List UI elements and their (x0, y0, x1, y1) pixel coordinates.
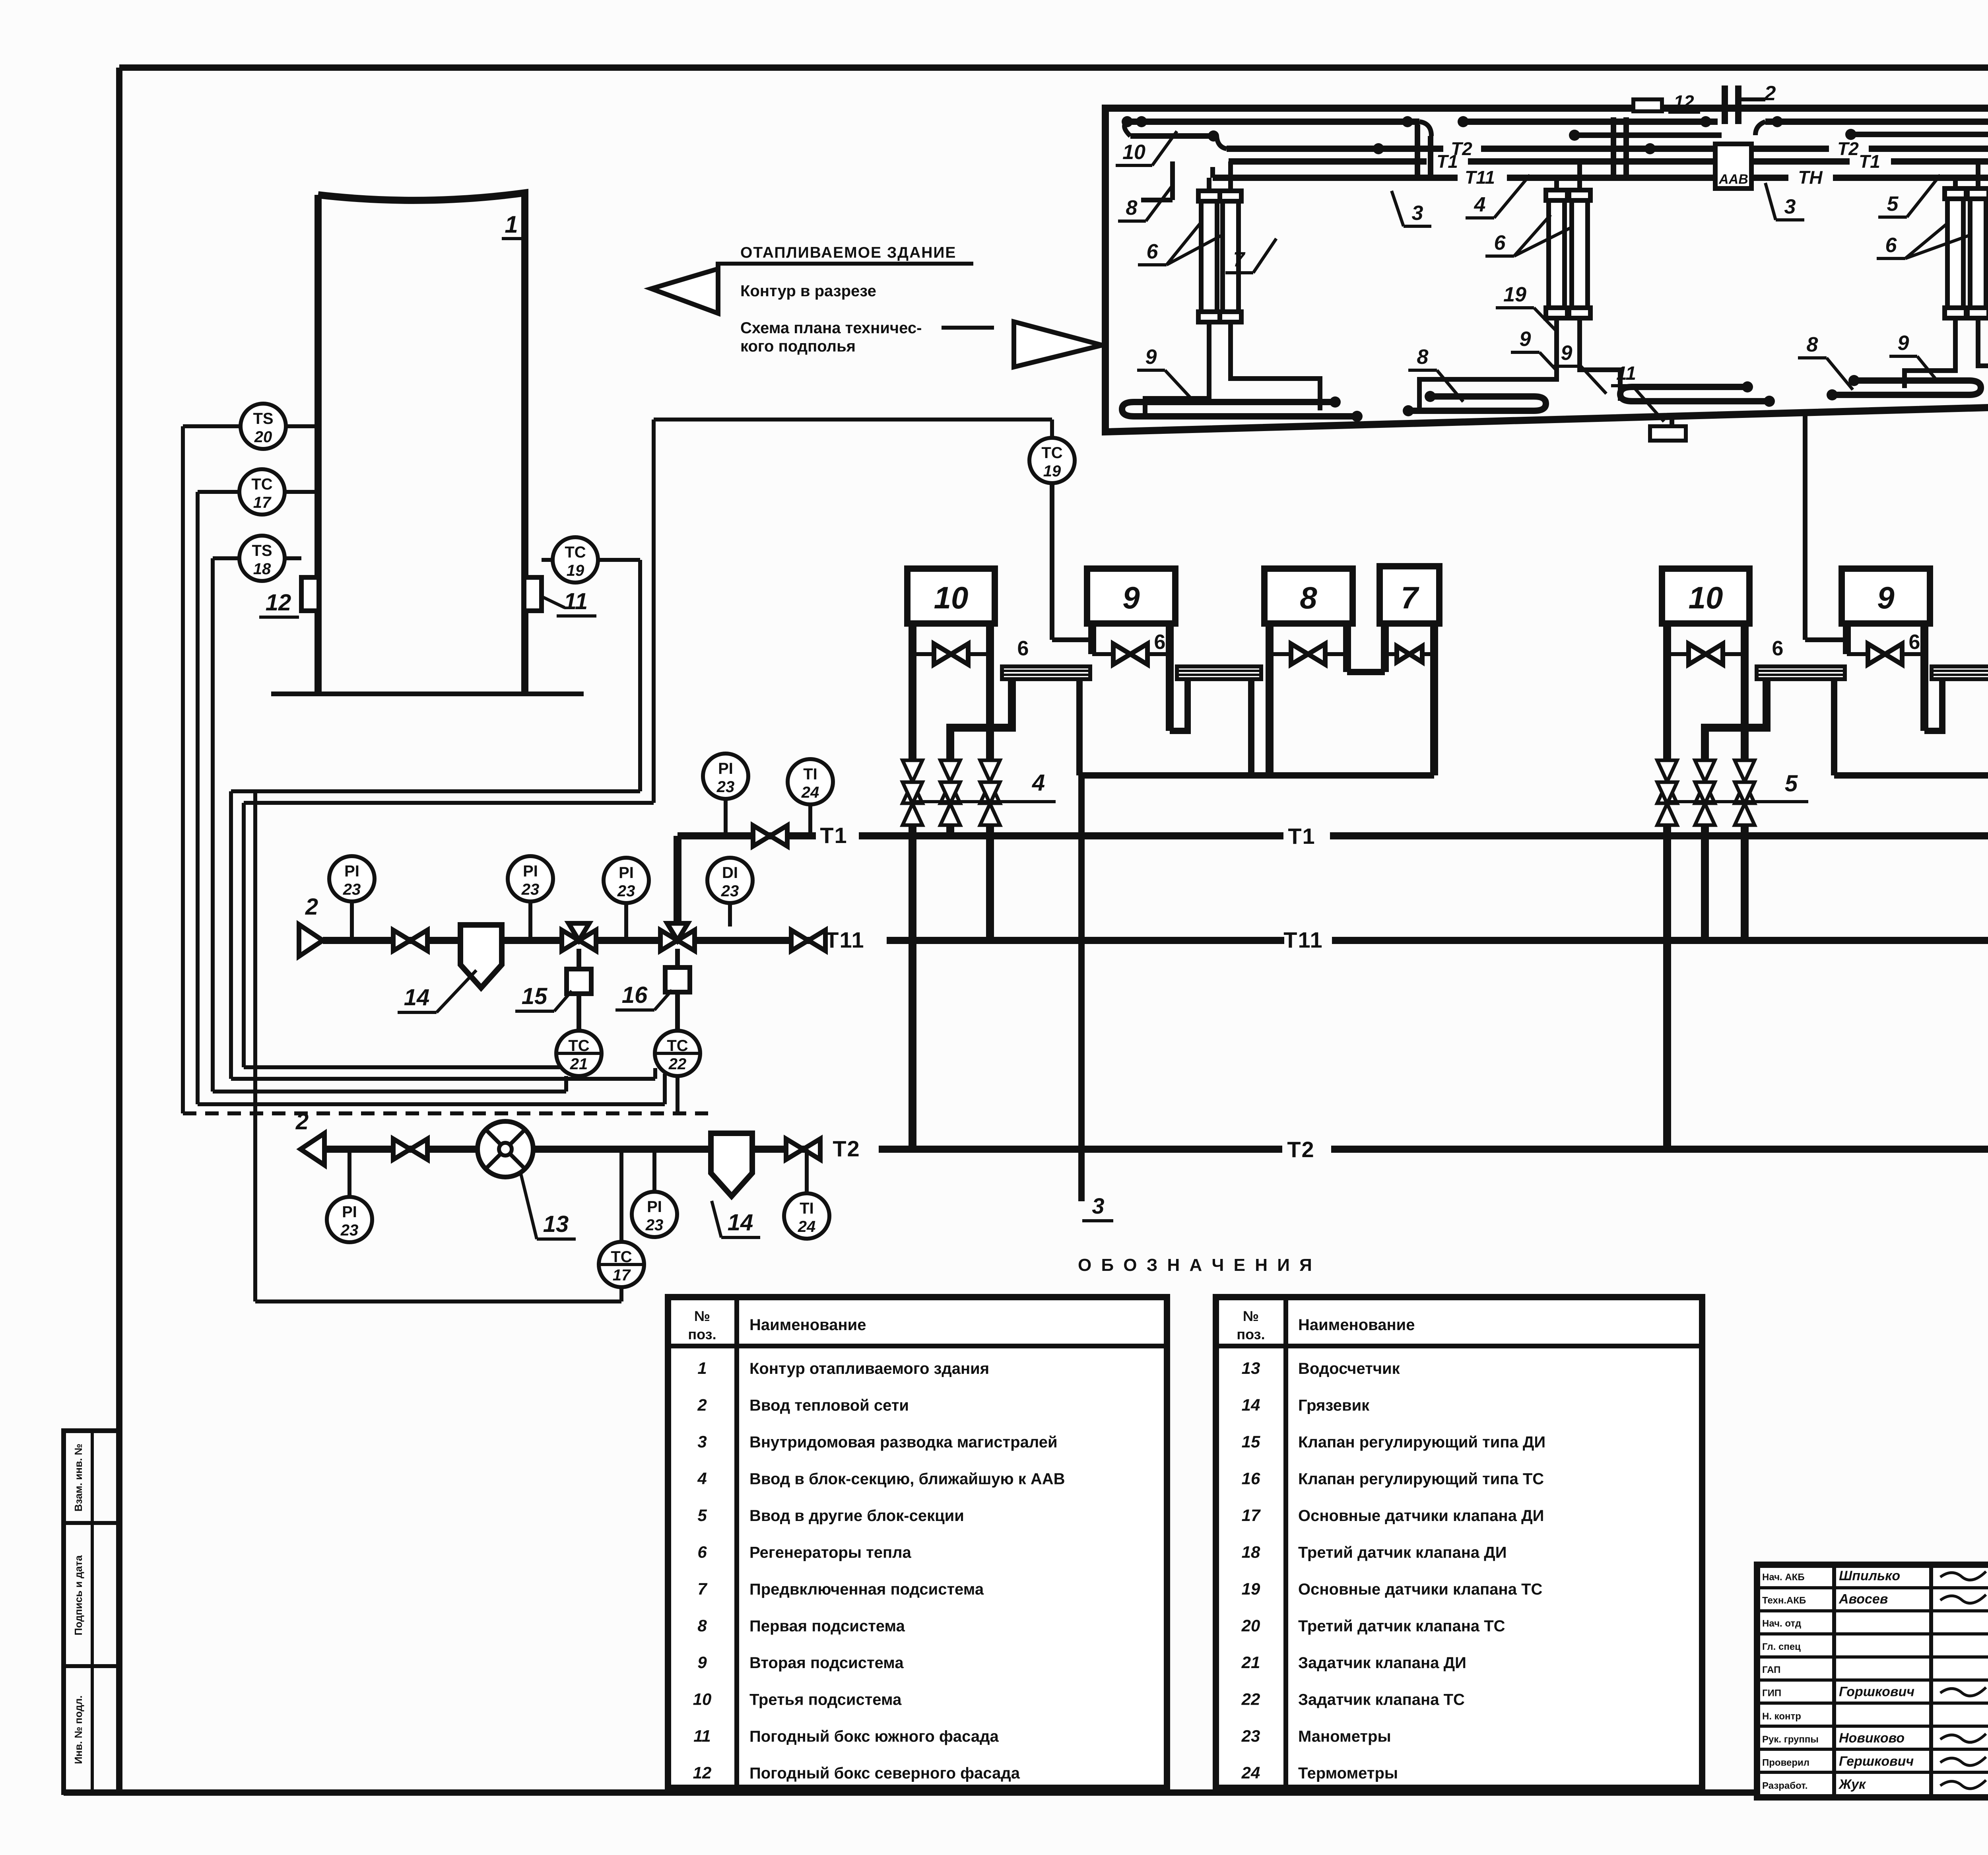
regenerator 6 bar A (1757, 666, 1845, 679)
svg-text:23: 23 (343, 881, 361, 898)
regenerator 6 bar A (1002, 666, 1090, 679)
svg-text:Т1: Т1 (820, 823, 847, 848)
svg-text:PI: PI (342, 1203, 357, 1221)
svg-text:8: 8 (1300, 580, 1317, 615)
svg-text:Термометры: Термометры (1298, 1765, 1398, 1782)
svg-text:19: 19 (567, 562, 584, 579)
svg-text:PI: PI (718, 760, 733, 777)
svg-text:23: 23 (645, 1216, 664, 1234)
svg-text:№: № (694, 1308, 710, 1324)
legend table left (668, 1297, 1167, 1788)
svg-text:Предвключенная подсистема: Предвключенная подсистема (749, 1581, 984, 1598)
strainer 14 on T2 (711, 1133, 752, 1196)
plan bottom bars (1122, 402, 1357, 416)
weather box 11 (524, 577, 542, 611)
svg-text:10: 10 (1122, 141, 1145, 164)
svg-text:Третья подсистема: Третья подсистема (749, 1691, 902, 1709)
cluster to bottom bars pipes (1145, 322, 1209, 415)
svg-text:8: 8 (697, 1616, 707, 1635)
svg-text:Манометры: Манометры (1298, 1728, 1391, 1745)
svg-text:17: 17 (253, 494, 272, 511)
svg-text:Т11: Т11 (1465, 167, 1495, 188)
box 9 to bar B elbow (1170, 681, 1188, 731)
svg-text:ОТАПЛИВАЕМОЕ ЗДАНИЕ: ОТАПЛИВАЕМОЕ ЗДАНИЕ (740, 244, 956, 261)
plan regenerator cluster 1 (1201, 200, 1217, 313)
svg-text:10: 10 (934, 580, 969, 615)
svg-text:18: 18 (253, 560, 271, 578)
svg-text:21: 21 (570, 1055, 588, 1073)
svg-text:Клапан регулирующий типа ТС: Клапан регулирующий типа ТС (1298, 1470, 1544, 1488)
svg-text:Н. контр: Н. контр (1762, 1711, 1801, 1722)
svg-text:Вторая подсистема: Вторая подсистема (749, 1654, 904, 1672)
svg-text:3: 3 (697, 1432, 707, 1451)
svg-text:1: 1 (505, 211, 518, 238)
legs of box 8 (1266, 624, 1274, 775)
svg-text:Т2: Т2 (1287, 1137, 1314, 1162)
svg-text:17: 17 (613, 1266, 631, 1284)
svg-text:6: 6 (1017, 637, 1029, 660)
svg-text:15: 15 (1242, 1432, 1260, 1451)
arrow to plan (942, 326, 994, 330)
plan regenerator cluster 2 (1549, 200, 1565, 309)
svg-text:Т1: Т1 (1288, 824, 1315, 849)
pipe T1 riser from valve 16 (674, 836, 681, 932)
svg-text:12: 12 (693, 1764, 712, 1782)
instruments below T2 (327, 1197, 372, 1242)
regenerator 6 bar B (1177, 666, 1261, 679)
svg-text:Нач. АКБ: Нач. АКБ (1762, 1572, 1805, 1583)
svg-text:14: 14 (404, 985, 430, 1010)
svg-text:3: 3 (1784, 195, 1796, 218)
riser 3 (1078, 775, 1085, 1201)
svg-text:18: 18 (1242, 1543, 1260, 1562)
svg-text:Авосев: Авосев (1839, 1591, 1888, 1606)
svg-text:9: 9 (1122, 580, 1140, 615)
wire from loop rectangle (652, 420, 656, 803)
svg-text:11: 11 (693, 1727, 711, 1745)
svg-text:24: 24 (801, 784, 819, 801)
svg-text:24: 24 (798, 1218, 816, 1235)
svg-text:10: 10 (1689, 580, 1723, 615)
svg-text:Ввод в другие блок-секции: Ввод в другие блок-секции (749, 1507, 964, 1525)
pipe T2 (325, 1146, 816, 1153)
svg-text:Т2: Т2 (833, 1136, 860, 1161)
plan main T2 (1227, 146, 1443, 152)
collector pipe (1834, 772, 1988, 779)
svg-text:кого подполья: кого подполья (740, 338, 856, 355)
svg-text:ААВ: ААВ (1718, 172, 1748, 187)
svg-text:6: 6 (697, 1543, 707, 1562)
box 7 (1380, 566, 1439, 624)
svg-text:9: 9 (697, 1653, 707, 1672)
svg-text:Ввод тепловой сети: Ввод тепловой сети (749, 1397, 909, 1414)
box 9 (1087, 569, 1175, 624)
svg-text:№: № (1243, 1308, 1259, 1324)
svg-text:ТС: ТС (611, 1248, 632, 1266)
valve under box 10 (1667, 652, 1745, 656)
svg-text:Наименование: Наименование (1298, 1316, 1415, 1334)
bundle horizontal wires to valve sensors (244, 1065, 561, 1069)
svg-text:TC: TC (1041, 444, 1062, 462)
svg-text:12: 12 (266, 590, 291, 616)
group 2 pipes below valves (1663, 836, 1671, 1149)
svg-text:Рук. группы: Рук. группы (1762, 1734, 1819, 1745)
svg-text:ГИП: ГИП (1762, 1688, 1781, 1699)
svg-text:Погодный бокс северного фасад: Погодный бокс северного фасада (749, 1765, 1020, 1782)
svg-text:О Б О З Н А Ч Е Н И Я: О Б О З Н А Ч Е Н И Я (1078, 1255, 1314, 1275)
svg-text:ГАП: ГАП (1762, 1665, 1780, 1675)
pipe T1 (678, 832, 816, 839)
svg-text:Новиково: Новиково (1839, 1731, 1905, 1746)
svg-text:14: 14 (1242, 1396, 1260, 1414)
svg-text:4: 4 (1032, 770, 1045, 796)
svg-text:Внутридомовая разводка магистр: Внутридомовая разводка магистралей (749, 1433, 1058, 1451)
svg-text:Третий датчик клапана ДИ: Третий датчик клапана ДИ (1298, 1544, 1507, 1562)
svg-text:Регенераторы тепла: Регенераторы тепла (749, 1544, 912, 1562)
svg-text:9: 9 (1877, 580, 1895, 615)
svg-text:Инв. № подл.: Инв. № подл. (72, 1696, 84, 1764)
svg-text:Задатчик клапана ТС: Задатчик клапана ТС (1298, 1691, 1465, 1709)
cluster feed pipes (1207, 178, 1211, 191)
svg-text:PI: PI (523, 862, 538, 880)
svg-text:16: 16 (1242, 1469, 1260, 1488)
legend table right (1216, 1297, 1702, 1788)
valve on T2 right (786, 1139, 820, 1160)
sensor TC19 (drop to group 1) (1050, 420, 1054, 438)
svg-text:Жук: Жук (1838, 1777, 1866, 1792)
svg-text:DI: DI (722, 864, 738, 882)
plan view outer contour (1105, 108, 1988, 432)
plan vertical risers (1415, 124, 1420, 178)
svg-text:TI: TI (803, 765, 817, 783)
svg-text:Ввод в блок-секцию, ближайшую: Ввод в блок-секцию, ближайшую к ААВ (749, 1470, 1065, 1488)
svg-text:Контур в разрезе: Контур в разрезе (740, 282, 876, 300)
svg-text:13: 13 (543, 1211, 569, 1237)
svg-text:Взам. инв. №: Взам. инв. № (72, 1444, 84, 1512)
sensor TS20 (241, 404, 286, 449)
svg-text:TS: TS (252, 542, 272, 559)
svg-text:24: 24 (1241, 1764, 1260, 1782)
svg-text:15: 15 (522, 983, 547, 1009)
svg-text:TS: TS (253, 410, 273, 427)
svg-text:5: 5 (1887, 192, 1899, 216)
legs of box 10 (1663, 624, 1671, 771)
hooks ends (1124, 122, 1431, 136)
svg-text:Наименование: Наименование (749, 1316, 866, 1334)
svg-text:Проверил: Проверил (1762, 1757, 1809, 1768)
plan top manifold bars row 2 (1130, 133, 1213, 139)
plan main T11 (1213, 175, 1458, 181)
loop rectangle top wire (654, 418, 1052, 422)
svg-text:PI: PI (619, 864, 634, 882)
svg-text:19: 19 (1242, 1579, 1260, 1598)
triple gate valves (909, 811, 916, 836)
legs of box 9 (1088, 624, 1096, 654)
triple gate valves (1663, 811, 1671, 836)
valve on T1 (753, 826, 787, 846)
sensor TS18 (239, 536, 285, 581)
svg-text:3: 3 (1092, 1193, 1104, 1218)
svg-text:Водосчетчик: Водосчетчик (1298, 1360, 1400, 1377)
PI23 on T1 (703, 754, 748, 799)
sensor stub wires at building (286, 424, 318, 428)
svg-text:8: 8 (1417, 346, 1429, 369)
svg-text:6: 6 (1154, 631, 1166, 654)
svg-text:Третий датчик клапана ТС: Третий датчик клапана ТС (1298, 1618, 1505, 1635)
sheet border frame (119, 64, 1988, 71)
svg-text:4: 4 (697, 1469, 707, 1488)
svg-text:8: 8 (1126, 196, 1138, 219)
svg-text:23: 23 (1241, 1727, 1260, 1745)
regenerator 6 bar B (1932, 666, 1988, 679)
svg-text:Нач. отд: Нач. отд (1762, 1618, 1801, 1629)
water meter 13 (478, 1121, 533, 1177)
svg-text:Грязевик: Грязевик (1298, 1397, 1370, 1414)
svg-text:12: 12 (1673, 91, 1694, 112)
legs of box 9 (1843, 624, 1851, 654)
svg-text:6: 6 (1909, 631, 1920, 654)
svg-text:14: 14 (728, 1210, 753, 1235)
svg-text:Горшкович: Горшкович (1839, 1684, 1914, 1700)
svg-text:7: 7 (1401, 580, 1419, 615)
pipe T11 (323, 937, 816, 944)
svg-text:23: 23 (721, 882, 739, 900)
label 4 with leader (912, 800, 1046, 803)
3-way valve 16 (660, 930, 695, 951)
strainer 14 on T11 (460, 925, 502, 988)
valve on T11 left (393, 930, 427, 951)
bar B right support (1248, 679, 1254, 775)
bar A right support (1076, 679, 1083, 775)
svg-text:Первая подсистема: Первая подсистема (749, 1618, 905, 1635)
valve on T11 right (791, 930, 825, 951)
valve on T2 left (393, 1139, 427, 1160)
svg-text:Основные датчики клапана ДИ: Основные датчики клапана ДИ (1298, 1507, 1544, 1525)
title block (1757, 1565, 1988, 1797)
svg-text:PI: PI (344, 862, 359, 880)
svg-text:13: 13 (1242, 1359, 1260, 1377)
svg-text:23: 23 (340, 1222, 359, 1239)
svg-text:9: 9 (1561, 342, 1573, 365)
bar A right support (1831, 679, 1837, 775)
svg-text:23: 23 (716, 778, 735, 796)
wire loop to TC17 bottom (253, 791, 257, 1301)
valve under box 7 (1385, 652, 1434, 656)
heat inlet 2 (capacitor bars) (1722, 85, 1728, 124)
svg-text:9: 9 (1145, 346, 1157, 369)
svg-text:2: 2 (1764, 82, 1776, 105)
svg-text:Подпись и дата: Подпись и дата (72, 1555, 84, 1636)
svg-text:5: 5 (697, 1506, 707, 1525)
valve under box 9 (1092, 652, 1170, 656)
svg-text:7: 7 (697, 1579, 707, 1598)
svg-text:23: 23 (521, 881, 540, 898)
svg-text:7: 7 (1233, 248, 1246, 271)
svg-text:Т1: Т1 (1859, 151, 1880, 172)
svg-text:Контур отапливаемого здания: Контур отапливаемого здания (749, 1360, 989, 1377)
legs of box 10 (909, 624, 916, 771)
box 12 plan (1633, 99, 1662, 111)
group 2: box 10 (1662, 569, 1749, 624)
svg-text:Т11: Т11 (1283, 927, 1323, 952)
svg-text:Т11: Т11 (825, 927, 864, 952)
legs of box 7 (1381, 624, 1389, 672)
svg-text:Гершкович: Гершкович (1839, 1754, 1914, 1769)
collector pipe (1079, 772, 1434, 779)
svg-text:Гл. спец: Гл. спец (1762, 1641, 1801, 1652)
U-link box8 to box7 (1347, 669, 1385, 675)
svg-text:2: 2 (697, 1396, 707, 1414)
svg-text:22: 22 (1241, 1690, 1260, 1709)
sensor TC19 (south facade) (553, 537, 598, 583)
svg-text:17: 17 (1242, 1506, 1261, 1525)
svg-text:5: 5 (1785, 771, 1798, 796)
svg-text:ТС: ТС (667, 1037, 688, 1055)
svg-text:6: 6 (1885, 234, 1897, 257)
svg-text:6: 6 (1772, 637, 1784, 660)
wire from TC19 down (638, 560, 642, 791)
svg-text:Клапан регулирующий типа ДИ: Клапан регулирующий типа ДИ (1298, 1433, 1545, 1451)
svg-text:10: 10 (693, 1690, 712, 1709)
box 9 (1842, 569, 1930, 624)
svg-text:поз.: поз. (688, 1326, 716, 1342)
svg-text:PI: PI (647, 1198, 662, 1216)
svg-text:16: 16 (622, 982, 648, 1008)
svg-text:2: 2 (305, 894, 318, 920)
svg-text:поз.: поз. (1237, 1326, 1265, 1342)
svg-text:ТС: ТС (568, 1037, 589, 1055)
box 8 (1264, 569, 1353, 624)
wire bundle left verticals (181, 426, 185, 1113)
group 1 pipes below valves (909, 836, 916, 1149)
AAV box (1715, 144, 1751, 188)
svg-text:19: 19 (1503, 283, 1526, 306)
middle pipe from regenerator (950, 681, 1012, 771)
ground line (271, 691, 584, 696)
stub 11 below plan (1670, 416, 1674, 426)
svg-text:6: 6 (1147, 240, 1159, 263)
valve under box 9 (1847, 652, 1924, 656)
group 1: box 10 (907, 569, 995, 624)
arrow to section (651, 264, 718, 313)
svg-text:Основные датчики клапана ТС: Основные датчики клапана ТС (1298, 1581, 1542, 1598)
svg-text:22: 22 (668, 1055, 687, 1073)
svg-text:2: 2 (295, 1109, 309, 1134)
box 9 to bar B elbow (1924, 681, 1942, 731)
svg-text:20: 20 (254, 428, 272, 446)
svg-text:TC: TC (251, 476, 272, 493)
svg-text:Т1: Т1 (1437, 151, 1458, 172)
valve 15 sensor TC21 (577, 994, 581, 1031)
svg-text:1: 1 (697, 1359, 707, 1377)
valve under box 8 (1270, 652, 1347, 656)
svg-text:19: 19 (1043, 462, 1061, 480)
svg-text:4: 4 (1474, 193, 1486, 216)
valve 16 sensor TC22 (675, 992, 680, 1031)
plan main T1 (1229, 158, 1427, 165)
plan top manifold bars row 1 (1127, 118, 1419, 125)
svg-text:3: 3 (1412, 202, 1423, 225)
svg-text:11: 11 (564, 589, 588, 614)
weather box 12 (301, 577, 319, 611)
svg-text:Схема плана техничес-: Схема плана техничес- (740, 319, 922, 337)
svg-text:Техн.АКБ: Техн.АКБ (1762, 1595, 1806, 1606)
svg-text:Погодный бокс южного фасада: Погодный бокс южного фасада (749, 1728, 999, 1745)
svg-text:20: 20 (1241, 1616, 1260, 1635)
svg-text:Т2: Т2 (1837, 138, 1859, 159)
left margin stamp strip (64, 1431, 119, 1793)
instruments above T11 (329, 856, 375, 901)
building contour 1 (318, 193, 525, 694)
drop from plan to group 2 (1803, 412, 1807, 640)
svg-text:9: 9 (1898, 332, 1909, 355)
svg-text:21: 21 (1241, 1653, 1260, 1672)
svg-text:6: 6 (1494, 231, 1506, 254)
svg-text:Задатчик клапана ДИ: Задатчик клапана ДИ (1298, 1654, 1466, 1672)
middle pipe from regenerator (1705, 681, 1767, 771)
valve under box 10 (912, 652, 990, 656)
svg-text:11: 11 (1616, 363, 1636, 384)
label 5 with leader (1667, 800, 1797, 803)
svg-text:TI: TI (800, 1200, 814, 1217)
svg-text:Разработ.: Разработ. (1762, 1781, 1807, 1791)
svg-text:8: 8 (1807, 333, 1818, 356)
svg-text:TC: TC (565, 544, 586, 561)
svg-text:ТН: ТН (1798, 167, 1823, 188)
TI24 on T1 (788, 759, 833, 804)
svg-text:23: 23 (617, 882, 635, 900)
sensor TC17 (239, 469, 285, 515)
plan regenerator cluster 3 (1947, 198, 1963, 309)
svg-text:9: 9 (1520, 328, 1531, 351)
svg-text:Шпилько: Шпилько (1839, 1568, 1900, 1583)
3-way valve 15 (562, 930, 596, 951)
